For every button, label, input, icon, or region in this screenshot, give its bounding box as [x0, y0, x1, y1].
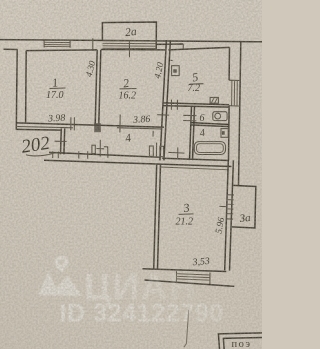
- corridor left wall: [61, 129, 65, 155]
- bath bottom wall: [162, 158, 229, 160]
- wall end blob: [94, 123, 101, 132]
- left outer wall: [15, 49, 18, 129]
- room 3 bottom outer wall: [145, 280, 235, 286]
- kitchen top stub: [182, 44, 184, 49]
- room 1 top wall: [26, 49, 97, 52]
- room 3 window: [176, 271, 210, 284]
- svg-text:17.0: 17.0: [46, 90, 64, 101]
- svg-text:3.98: 3.98: [47, 113, 66, 125]
- corridor bottom inner: [49, 152, 160, 157]
- kitchen top inner wall: [168, 47, 229, 50]
- room 3 top inner line: [161, 167, 229, 170]
- leader line: [184, 310, 189, 347]
- svg-text:21.2: 21.2: [176, 217, 194, 228]
- balcony door divider: [128, 41, 130, 57]
- right inner wall mid: [228, 106, 231, 160]
- svg-text:7.2: 7.2: [188, 83, 201, 94]
- room 1 left inner wall: [25, 51, 28, 124]
- wall between rooms 1 and 2: [95, 50, 101, 124]
- wall room2/kitchen pair: [160, 40, 171, 160]
- entrance door symbol: [92, 145, 95, 153]
- left wall stub: [4, 48, 18, 50]
- right inner wall upper: [228, 47, 230, 80]
- room 2 top wall: [101, 49, 167, 51]
- lobby door cross: [168, 147, 184, 158]
- dim tick 5.96: [219, 205, 227, 207]
- balcony 3a door hatch: [226, 195, 234, 219]
- vent foot tick: [171, 59, 173, 61]
- water heater: [221, 129, 228, 138]
- svg-text:За: За: [239, 212, 252, 225]
- entrance jamb ticks: [53, 151, 88, 159]
- room 3 left wall: [154, 164, 161, 269]
- rooms bottom wall: [17, 123, 164, 127]
- landing wall line: [16, 128, 61, 131]
- svg-text:3.86: 3.86: [132, 114, 151, 126]
- room 3 right wall: [225, 160, 234, 271]
- stove U1: [172, 66, 180, 76]
- dim tick 3.98: [71, 117, 75, 130]
- sink: [213, 112, 227, 121]
- kitchen top outer line: [156, 43, 183, 45]
- facade dimension tick: [92, 38, 94, 51]
- svg-text:ID 324122790: ID 324122790: [60, 299, 224, 327]
- svg-text:2а: 2а: [125, 26, 138, 39]
- WC door ticks: [183, 115, 196, 121]
- watermark mountain peaks: [38, 271, 59, 296]
- balcony 2a: [102, 22, 156, 49]
- right outer wall: [239, 42, 241, 186]
- bathtub: [194, 142, 225, 155]
- kitchen bottom wall: [163, 103, 229, 107]
- svg-text:202: 202: [20, 133, 52, 158]
- kitchen door jambs: [171, 100, 177, 110]
- svg-text:поэ: поэ: [232, 339, 252, 349]
- balcony 2a window hatch: [103, 41, 157, 49]
- balcony 3a: [232, 185, 256, 228]
- stamp box: [218, 333, 262, 349]
- room 3 bottom inner wall: [143, 269, 227, 272]
- vent box on wall: [210, 97, 218, 103]
- corridor side tick: [157, 114, 169, 116]
- kitchen window: [229, 80, 241, 106]
- dim tick 3.86: [120, 115, 166, 137]
- svg-text:16.2: 16.2: [119, 91, 137, 102]
- room3 door jambs: [149, 146, 153, 156]
- window room 1: [44, 40, 70, 48]
- long wall line corridor/room3: [44, 160, 232, 166]
- watermark cian logo pin: [38, 256, 82, 296]
- WC/bath divider: [191, 123, 229, 127]
- facade line (full width): [0, 40, 262, 42]
- WC left wall: [190, 106, 195, 160]
